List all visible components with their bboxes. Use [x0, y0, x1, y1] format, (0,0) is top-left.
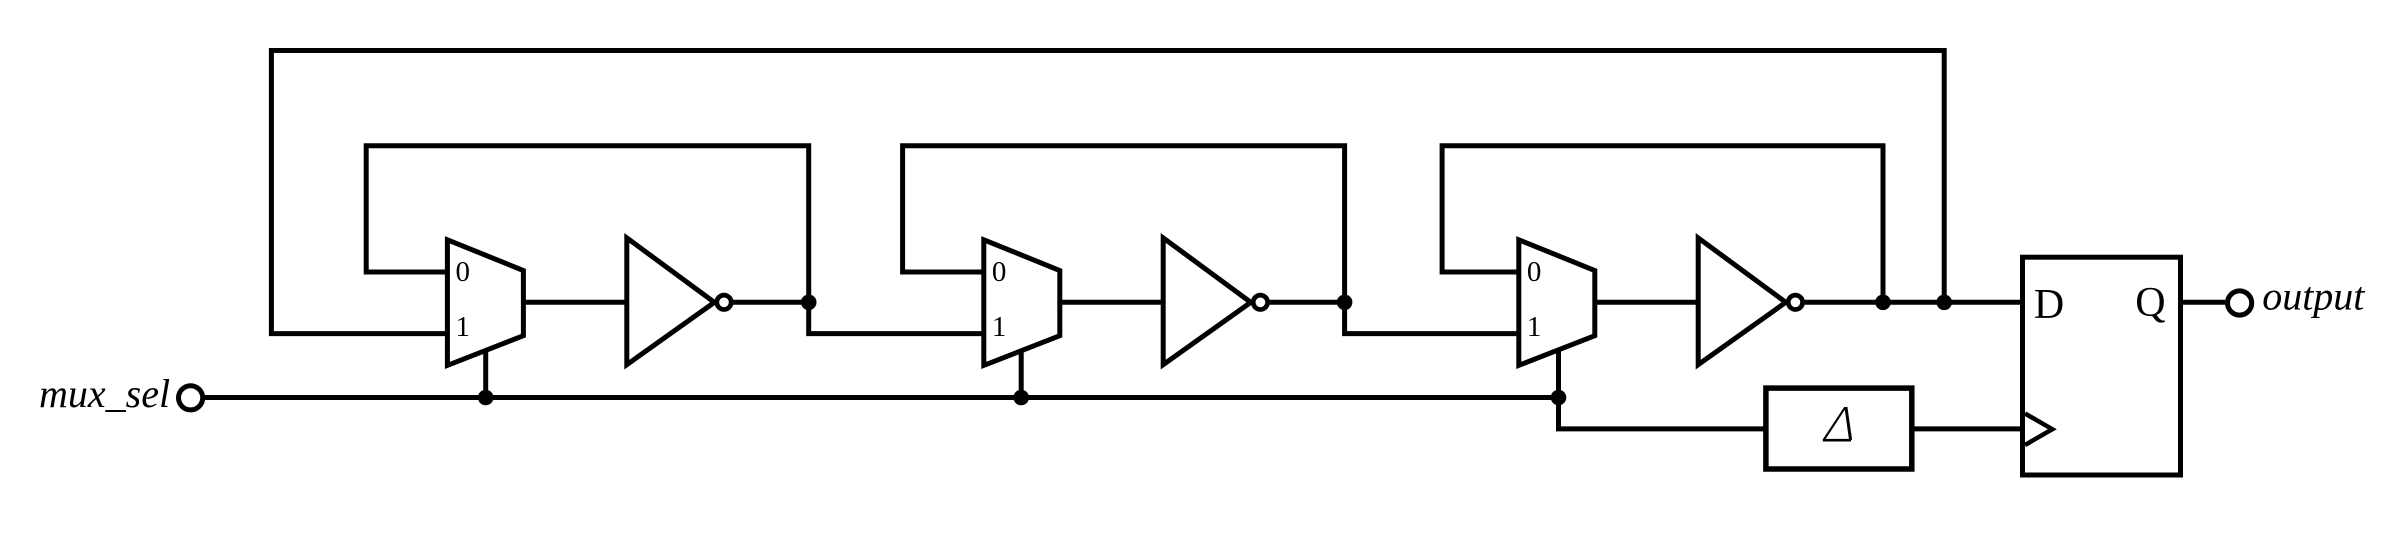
- wire: node B down-right to mux U3 input 1: [1345, 302, 1519, 333]
- terminal: mux_sel input port: [179, 386, 203, 410]
- inverter X2: [1163, 238, 1267, 365]
- junction: node A: [801, 295, 817, 311]
- wire: mux U3 select stub: [1556, 349, 1561, 398]
- wire: stage 1 local feedback from node A to mux U1 input 0: [366, 146, 809, 303]
- wire: global feedback from output node up-over to mux U1 input 1: [271, 51, 1944, 334]
- svg-text:0: 0: [456, 256, 471, 288]
- svg-text:1: 1: [992, 311, 1007, 343]
- wire: mux U3 output to inverter X3 input: [1595, 300, 1700, 305]
- junction: node B: [1337, 295, 1353, 311]
- junction: mux_sel at mux U3: [1551, 390, 1567, 406]
- wire: mux U1 select stub: [483, 349, 488, 398]
- wire: node A down-right to mux U2 input 1: [809, 302, 984, 333]
- D flip-flop U4: [2023, 257, 2181, 475]
- label: delay value Δ: [1823, 407, 1851, 440]
- wire: delay block output to flip-flop U4 clock input: [1912, 426, 2023, 431]
- inverter X1: [627, 238, 731, 365]
- delay block U5: [1766, 388, 1912, 469]
- svg-text:1: 1: [456, 311, 471, 343]
- wire: mux_sel junction down-right to delay block input: [1559, 398, 1766, 429]
- svg-text:output: output: [2262, 274, 2365, 319]
- wire: stage 3 local feedback from node C to mux U3 input 0: [1442, 146, 1883, 303]
- svg-text:0: 0: [1527, 256, 1542, 288]
- pin: clock wedge of flip-flop U4: [2025, 414, 2052, 446]
- wire: inverter X2 output to node B: [1268, 300, 1345, 305]
- junction: mux_sel at mux U2: [1013, 390, 1029, 406]
- mux U2 (2:1 multiplexer): [984, 240, 1060, 366]
- inverter X3: [1698, 238, 1802, 365]
- junction: node C (stage 3 feedback tap): [1875, 295, 1891, 311]
- svg-text:D: D: [2034, 282, 2064, 328]
- wire: mux U1 output to inverter X1 input: [523, 300, 628, 305]
- wire: mux U2 select stub: [1019, 349, 1024, 398]
- wire: mux U2 output to inverter X2 input: [1060, 300, 1165, 305]
- wire: flip-flop U4 Q output to output terminal: [2181, 300, 2226, 305]
- wire: inverter X1 output to node A: [731, 300, 809, 305]
- mux U1 (2:1 multiplexer): [447, 240, 523, 366]
- svg-text:Q: Q: [2135, 280, 2165, 326]
- svg-text:0: 0: [992, 256, 1007, 288]
- junction: global feedback tap: [1936, 295, 1952, 311]
- mux U3 (2:1 multiplexer): [1519, 240, 1595, 366]
- svg-text:1: 1: [1527, 311, 1542, 343]
- junction: mux_sel at mux U1: [478, 390, 494, 406]
- svg-text:mux_sel: mux_sel: [39, 371, 170, 416]
- wire: mux_sel bus: [205, 395, 1559, 400]
- terminal: output port: [2228, 291, 2252, 315]
- wire: inverter X3 output to flip-flop U4 D input (node C): [1803, 300, 2023, 305]
- wire: stage 2 local feedback from node B to mux U2 input 0: [903, 146, 1345, 303]
